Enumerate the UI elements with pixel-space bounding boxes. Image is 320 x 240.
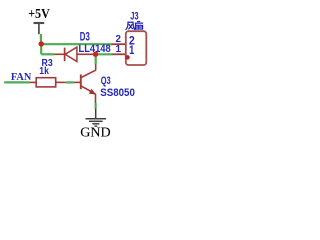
label 风扇 glyph 扇 (135, 22, 142, 30)
wire resistor to base (65, 81, 74, 83)
svg-text:1: 1 (129, 43, 134, 57)
label 风扇 glyph 风 (126, 22, 135, 29)
wire down from junction A (40, 44, 42, 54)
svg-text:GND: GND (80, 124, 111, 139)
svg-text:FAN: FAN (11, 71, 31, 83)
svg-text:1: 1 (116, 44, 122, 55)
wire top row to J3 pin2 (41, 43, 112, 45)
pin 1 marker dot inside J3 (125, 55, 130, 60)
wire +5V stem to junction (40, 34, 42, 44)
svg-text:1k: 1k (39, 66, 49, 77)
svg-text:Q3: Q3 (101, 75, 111, 87)
diode D3 (54, 47, 93, 61)
wire diode row to J3 pin1 (96, 53, 113, 55)
connector J3 box (126, 31, 147, 65)
svg-text:+5V: +5V (28, 6, 50, 21)
transistor Q3 base lead (74, 81, 80, 83)
wire FAN input (4, 81, 30, 83)
svg-text:J3: J3 (130, 11, 138, 23)
ground symbol (86, 108, 107, 126)
power +5V bar symbol (34, 23, 45, 34)
pin 1 lead of J3 (112, 53, 126, 55)
svg-text:LL4148: LL4148 (79, 43, 111, 55)
wire to diode cathode (41, 53, 54, 55)
resistor R3 (30, 78, 65, 87)
node junction dot B (93, 52, 98, 57)
svg-text:SS8050: SS8050 (100, 87, 135, 99)
wire junction B down to collector (95, 54, 97, 64)
transistor Q3 body (81, 64, 97, 103)
node junction dot A (39, 41, 44, 46)
wire emitter to ground (94, 103, 96, 109)
svg-text:D3: D3 (80, 32, 90, 44)
pin 2 lead of J3 (112, 43, 126, 45)
